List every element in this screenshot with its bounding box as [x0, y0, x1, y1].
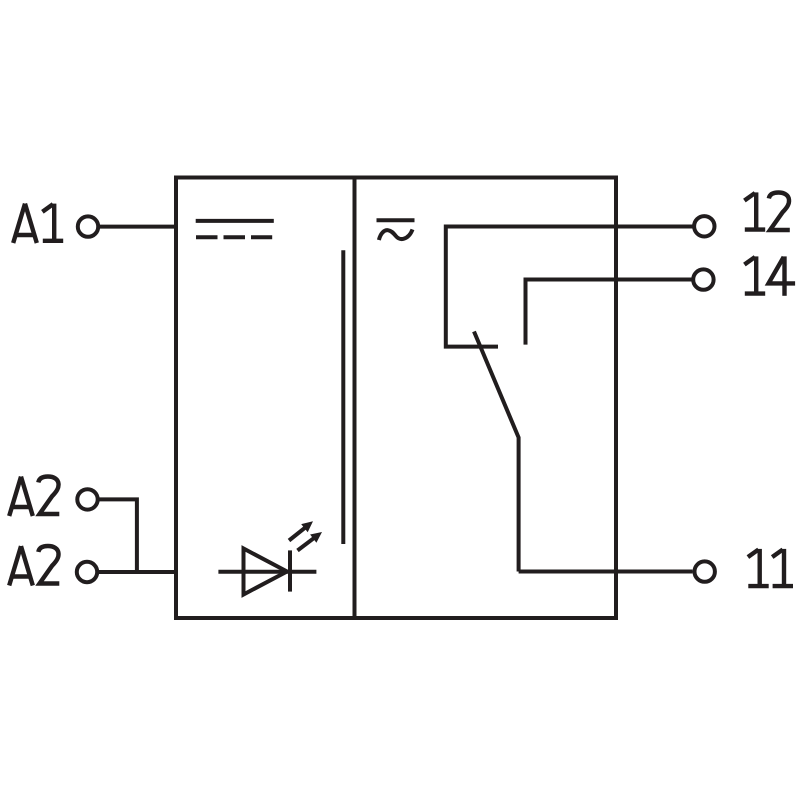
divider (input/output sections) — [353, 178, 357, 619]
terminal A2 lower — [77, 562, 97, 582]
terminal 14 — [693, 269, 713, 289]
terminal A1 — [78, 216, 98, 236]
terminal A2 upper — [77, 489, 97, 509]
LED D1 — [218, 521, 322, 594]
wire A1 — [100, 225, 176, 229]
label A1 — [13, 204, 63, 243]
isolation barrier line — [341, 250, 345, 544]
switch arm (common, to terminal 11) — [474, 332, 519, 572]
terminal 11 — [695, 561, 715, 581]
wire A2 lower — [99, 570, 176, 574]
wire 12 (NC fixed contact) — [446, 227, 693, 347]
wire A2 upper — [99, 499, 137, 572]
AC symbol — [377, 220, 415, 240]
label 11 — [748, 549, 793, 586]
label A2 lower — [9, 546, 59, 586]
DC symbol — [196, 221, 274, 237]
label 14 — [744, 256, 795, 295]
wire 14 (NO fixed contact) — [526, 280, 692, 345]
relay module box — [176, 178, 616, 619]
label 12 — [744, 192, 789, 230]
wire 11 — [519, 570, 693, 574]
label A2 upper — [9, 477, 59, 517]
terminal 12 — [694, 216, 714, 236]
